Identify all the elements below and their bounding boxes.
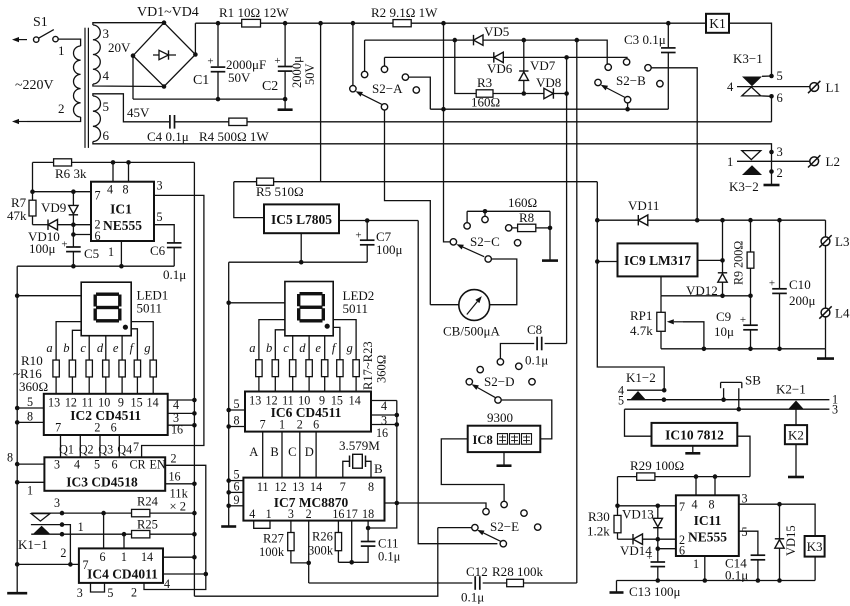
wire IC11 pin1 riser [704, 556, 706, 581]
svg-text:2: 2 [131, 586, 137, 600]
wire LED2 seg f [333, 327, 340, 360]
svg-text:C3 0.1μ: C3 0.1μ [624, 32, 666, 47]
wire K1-1 line 3 [31, 512, 132, 514]
svg-text:C1: C1 [193, 73, 209, 88]
diode VD10 [48, 219, 58, 229]
svg-text:47k: 47k [7, 208, 27, 223]
ground K3-2 [764, 184, 780, 187]
diode VD11 [638, 215, 648, 225]
svg-text:18: 18 [362, 507, 374, 521]
node R24/x194 [192, 511, 197, 516]
wire LED2 seg c [292, 336, 294, 360]
svg-text:12: 12 [266, 394, 278, 408]
svg-text:Q1: Q1 [59, 443, 74, 457]
switch S2-A contact 1 [361, 71, 367, 77]
svg-text:K3: K3 [807, 539, 823, 554]
wire VD14 to R30 [618, 538, 634, 540]
wire LED1 feed [17, 295, 81, 297]
node C5 on gnd rail [71, 264, 76, 269]
wire top rail segment D to K3-1 [729, 23, 772, 76]
svg-text:S2−E: S2−E [490, 519, 519, 534]
svg-text:Q2: Q2 [79, 443, 94, 457]
wire R5 line left [234, 181, 257, 183]
wire R27 bottom [291, 551, 310, 563]
wire LED1 seg d [105, 336, 107, 360]
crystal B1 3.579M [349, 456, 351, 468]
node pin17/R26/C11 [349, 560, 354, 565]
wire IC7 pin18 down [367, 521, 369, 542]
svg-text:13: 13 [292, 480, 304, 494]
node C13 on rail [656, 578, 661, 583]
switch S2-A contact 4 [413, 87, 419, 93]
svg-text:6: 6 [777, 91, 783, 105]
svg-text:15: 15 [331, 394, 343, 408]
svg-text:7: 7 [55, 421, 61, 435]
node pin7/VD13 [656, 504, 661, 509]
svg-text:+: + [740, 314, 746, 326]
resistor R7 [29, 200, 36, 216]
wire Q4 [118, 435, 120, 457]
switch S2-A rotor [350, 86, 356, 92]
switch S2-D moving contact [495, 397, 501, 403]
switch S2-A contact 3 [402, 74, 408, 80]
wire Q1 [60, 435, 62, 457]
wire C7 bottom lead [366, 245, 368, 262]
svg-text:NE555: NE555 [688, 530, 727, 545]
svg-text:8: 8 [709, 498, 715, 512]
wire LED1 seg c [88, 336, 90, 360]
wire D [315, 432, 317, 478]
svg-text:4: 4 [164, 577, 170, 591]
wire C9 top lead [750, 296, 752, 325]
output terminal L4 [821, 308, 830, 317]
node K3-2 pin2 [769, 169, 774, 174]
resistor R14 [119, 360, 125, 377]
wire IC1 ground rail [17, 265, 174, 267]
diode VD15 [775, 540, 784, 549]
svg-text:9300: 9300 [487, 410, 514, 425]
wire IC2 pin16 stub [168, 424, 195, 426]
wire IC11 pin5 to C14 [739, 531, 758, 555]
wire S1 to transformer primary [58, 39, 80, 46]
wire L3-L4 link [825, 246, 827, 308]
node IC2 pin5 [15, 406, 20, 411]
node IC11 pin4 feed [694, 474, 699, 479]
svg-text:A: A [249, 445, 258, 459]
svg-text:1: 1 [727, 155, 733, 169]
svg-text:0.1μ: 0.1μ [525, 353, 548, 368]
wire R6 line right [72, 161, 195, 163]
wire VD5 line [365, 39, 474, 41]
node pin6/C13 [656, 546, 661, 551]
svg-text:2: 2 [306, 507, 312, 521]
svg-text:8: 8 [123, 183, 129, 197]
svg-text:0.1μ: 0.1μ [725, 568, 748, 583]
node pin7 line on x17 [15, 562, 20, 567]
lamp terminal L1 [810, 83, 819, 92]
wire IC11 pin7 line [618, 505, 676, 507]
node pin1 on rail [703, 578, 708, 583]
node C1 top [216, 21, 221, 26]
node K1-1 line3 terminal [60, 511, 65, 516]
wire negative rail [133, 98, 285, 100]
node VD5 line / R3 branch [453, 38, 458, 43]
svg-text:1: 1 [58, 43, 65, 58]
switch S2-C contact 3 (R8) [506, 225, 512, 231]
wire C3 top lead [667, 23, 669, 47]
wire winding-4 to bridge AC bottom [93, 84, 164, 87]
wire IC1 pin3 output [142, 195, 204, 457]
wire C2 ground stub [284, 99, 286, 110]
svg-text:L1: L1 [826, 80, 840, 95]
capacitor C11 [361, 541, 376, 543]
resistor R9 [747, 252, 754, 268]
wire C2 top lead [284, 23, 286, 66]
node line3/SB [737, 407, 742, 412]
node IC7 pin6 [226, 490, 231, 495]
svg-text:1: 1 [78, 520, 84, 534]
switch S2-C contact 2 [482, 216, 488, 222]
wire VD5 line right [483, 40, 607, 64]
display LED1 [81, 282, 131, 336]
svg-text:3: 3 [288, 507, 294, 521]
wire IC2 pin5 stub [17, 407, 44, 409]
svg-text:K2−1: K2−1 [776, 382, 806, 397]
svg-text:12: 12 [65, 396, 77, 410]
svg-text:9: 9 [319, 394, 325, 408]
svg-text:300k: 300k [308, 544, 334, 558]
svg-text:Q4: Q4 [117, 443, 132, 457]
wire R24 right [150, 512, 195, 514]
switch S2-D contact 1 [497, 359, 503, 365]
wire C7 top lead [366, 221, 368, 241]
wire IC9 bottom rail [661, 348, 826, 350]
svg-text:R26: R26 [312, 530, 333, 544]
diode VD14 [633, 534, 643, 544]
wire IC4 pin14 stub [163, 556, 194, 558]
timer IC11 NE555 [676, 495, 739, 556]
svg-text:4: 4 [692, 498, 698, 512]
svg-text:S1: S1 [33, 15, 48, 30]
node IC9 out / VD12 [720, 258, 725, 263]
svg-text:2: 2 [94, 421, 100, 435]
wire R18 to IC6 [274, 377, 276, 392]
node C3 top [666, 21, 671, 26]
svg-text:4: 4 [107, 183, 113, 197]
wire LED2 seg d [308, 336, 310, 360]
svg-text:C12: C12 [466, 564, 488, 579]
wire +5V riser to S2-E moving [418, 221, 497, 544]
wire top rail segment B [261, 22, 394, 24]
ground K2 [788, 476, 804, 479]
node VD12 / adj line [720, 294, 725, 299]
svg-text:16: 16 [332, 507, 344, 521]
capacitor C6 [167, 242, 182, 244]
node VD15 on rail [777, 578, 782, 583]
ground bottom left [7, 592, 27, 595]
node K1-1 pin1 branch [122, 532, 127, 537]
wire IC3 pin16 stub [165, 483, 194, 485]
wire IC1 pin5 to C6 [154, 225, 174, 243]
svg-text:K1−1: K1−1 [18, 537, 48, 552]
capacitor C7 [360, 239, 375, 241]
svg-text:11: 11 [257, 480, 269, 494]
svg-text:100μ: 100μ [29, 241, 56, 256]
wire IC11 bottom rail [617, 580, 816, 582]
regulator IC5 L7805 [264, 204, 339, 233]
switch S2-E rotor [472, 524, 478, 530]
svg-text:8: 8 [233, 414, 239, 428]
wire VD12 riser [722, 220, 724, 273]
node IC3 pin1 [15, 480, 20, 485]
wire IC9 input lead [597, 261, 617, 263]
svg-text:0.1μ: 0.1μ [163, 267, 186, 282]
svg-text:45V: 45V [127, 105, 150, 120]
capacitor C4 [169, 115, 171, 129]
svg-text:5: 5 [777, 69, 783, 83]
wire VD10 to left vertical [33, 224, 49, 226]
svg-text:6: 6 [313, 418, 319, 432]
node IC6 pin5 [226, 408, 231, 413]
node IC2 pin8 [15, 420, 20, 425]
svg-text:13: 13 [249, 394, 261, 408]
svg-text:7: 7 [95, 189, 101, 203]
switch S1 lever [39, 30, 54, 39]
wire VD15 top lead [779, 504, 781, 538]
svg-text:11: 11 [282, 394, 294, 408]
wire riser top rail to R5 rail [320, 23, 322, 182]
svg-text:K3−1: K3−1 [733, 51, 763, 66]
wire VD5 branch down to R3 [455, 40, 476, 93]
wire line3 to IC10 input [625, 409, 652, 436]
capacitor C2 [278, 66, 293, 68]
regulator IC9 LM317 [618, 243, 698, 276]
switch S2-E contact 1 [501, 501, 507, 507]
node LED1 feed [15, 293, 20, 298]
node VD9/pin2 line [71, 222, 76, 227]
node R2 output [441, 21, 446, 26]
diode VD7 [519, 72, 528, 81]
node x396/S2-E line [395, 501, 400, 506]
wire R7 top [32, 162, 34, 200]
switch S2-C contact 1 [464, 223, 470, 229]
svg-text:VD13: VD13 [622, 507, 654, 522]
wire IC1 pin6 line [73, 234, 91, 236]
wire IC9 adj pin [660, 276, 662, 295]
svg-text:R30: R30 [588, 509, 610, 524]
node line5/common [662, 397, 667, 402]
node C2 bottom [283, 97, 288, 102]
svg-text:7: 7 [133, 440, 139, 454]
svg-text:d: d [97, 341, 104, 355]
gate IC4 CD4011 [79, 548, 163, 583]
node VD8 / xA [564, 91, 569, 96]
wire IC4 pin4 loop [144, 574, 206, 590]
svg-text:e: e [315, 341, 321, 355]
switch S1 contact right [53, 36, 58, 41]
wire VD9 top lead [72, 192, 74, 206]
wire C3 bottom lead [667, 53, 669, 110]
node K1-2 common [662, 388, 667, 393]
node pin7/VD9 [71, 189, 76, 194]
svg-text:R25: R25 [137, 518, 158, 532]
svg-text:VD8: VD8 [536, 75, 562, 90]
svg-text:VD5: VD5 [484, 24, 509, 39]
svg-text:3: 3 [103, 26, 110, 41]
wire IC5 output [339, 220, 418, 222]
svg-text:3: 3 [832, 403, 838, 417]
resistor R2 [393, 20, 411, 27]
resistor R19 [290, 360, 296, 377]
triac K3-1 upper filled triangle [742, 77, 762, 87]
svg-text:C4 0.1μ: C4 0.1μ [147, 129, 189, 144]
node IC1 pin8 feed [126, 160, 131, 165]
wire common rail to C3 [430, 108, 668, 110]
svg-text:5: 5 [742, 525, 748, 539]
wire R12 to IC2 [88, 377, 90, 394]
svg-text:VD11: VD11 [628, 198, 659, 213]
resistor R21 [322, 360, 328, 377]
node wiper on rail [702, 347, 707, 352]
wire VD7 bottom lead [523, 80, 525, 93]
wire R9 bottom lead [750, 268, 752, 296]
svg-text:Q3: Q3 [98, 443, 113, 457]
wire LED2 seg a [259, 320, 285, 360]
wire C2 bottom lead [284, 71, 286, 99]
decoder IC7 MC8870 [243, 478, 384, 521]
wire IC8 ground stub [503, 452, 505, 465]
wire R29 line left [618, 476, 637, 478]
wire primary bottom to AC terminal [27, 117, 81, 122]
wire rail left ground stub [616, 581, 618, 592]
resistor R27 [288, 533, 294, 551]
svg-text:13: 13 [48, 396, 60, 410]
wire bridge DC+ riser [194, 23, 196, 54]
wire VD15 bottom lead [779, 548, 781, 580]
switch S2-C moving contact [485, 256, 491, 262]
wire IC4 pin7 line [17, 563, 79, 565]
svg-text:2000μ: 2000μ [290, 56, 304, 88]
svg-text:10: 10 [298, 394, 310, 408]
node IC3 pin16 [192, 482, 197, 487]
wire RP1 top lead [660, 296, 662, 313]
svg-text:360Ω: 360Ω [19, 379, 48, 394]
switch S2-E contact 4 [535, 524, 541, 530]
svg-text:R27: R27 [263, 532, 284, 546]
svg-text:b: b [266, 341, 272, 355]
resistor R17 [256, 360, 262, 377]
switch S2-B contact 1 [605, 64, 611, 70]
node IC5 gnd pin [299, 260, 304, 265]
resistor R24 [132, 509, 150, 516]
capacitor C12 [474, 576, 476, 590]
wire 45V rail [247, 121, 772, 123]
svg-text:CB/500μA: CB/500μA [443, 324, 500, 339]
node IC7 pin9 [226, 504, 231, 509]
node K1-1 line1 terminal [60, 532, 65, 537]
svg-text:IC5 L7805: IC5 L7805 [271, 212, 332, 227]
node IC6 pin3 [395, 413, 400, 418]
meter needle [467, 302, 478, 315]
svg-text:9: 9 [233, 493, 239, 507]
svg-text:14: 14 [147, 396, 159, 410]
node VD11/C10 [777, 218, 782, 223]
node S2-A rotor feed [351, 21, 356, 26]
wire left vertical x228 [228, 262, 230, 525]
wire S2-A moving to meter riser [385, 110, 431, 305]
svg-text:+: + [769, 278, 775, 290]
svg-text:5: 5 [107, 586, 113, 600]
ground under C2 [278, 108, 293, 111]
svg-text:+: + [207, 56, 213, 68]
svg-text:NE555: NE555 [103, 218, 142, 233]
wire IC11 pin8 riser [714, 477, 716, 496]
switch S2-A lever [362, 94, 383, 104]
relay coil K1 [706, 14, 729, 33]
node K1-1 pin6 branch [101, 511, 106, 516]
switch S2-D contact 3 [516, 363, 522, 369]
svg-text:16: 16 [169, 470, 181, 484]
svg-text:5: 5 [27, 395, 33, 409]
wire meter left lead [430, 304, 458, 306]
wire IC4 pins3-5 bridge [91, 583, 105, 592]
wire K3-1 bottom to 45V rail [771, 96, 773, 122]
decoder IC6 CD4511 [245, 392, 371, 432]
switch S2-E lever [483, 533, 501, 542]
svg-text:R9 200Ω: R9 200Ω [732, 241, 746, 285]
capacitor C14 [751, 554, 766, 556]
svg-text:C13 100μ: C13 100μ [629, 584, 680, 599]
svg-text:IC4 CD4011: IC4 CD4011 [87, 567, 158, 582]
switch S2-E contact 3 [521, 510, 527, 516]
wire L3 top lead [825, 220, 827, 237]
display LED2 [285, 282, 333, 336]
wire K3-1 pin6 link [761, 95, 772, 97]
wire IC10 ground stub [692, 446, 694, 453]
switch S2-B moving contact [624, 97, 630, 103]
node IC1 pin4 feed [111, 160, 116, 165]
svg-text:D: D [305, 445, 314, 459]
wire S2-A rotor riser [352, 23, 354, 86]
wire R21 to IC6 [324, 377, 326, 392]
svg-text:8: 8 [7, 451, 13, 465]
wire IC4 pin1 riser [123, 534, 125, 548]
music chip IC8 9300 [468, 426, 541, 452]
svg-text:3.579M: 3.579M [339, 438, 380, 453]
wire winding-6 rail [93, 142, 772, 153]
diode VD5 [474, 35, 484, 45]
relay contact K1-1 filled triangle [34, 526, 50, 534]
wire R28 to xB [524, 582, 577, 584]
wire bridge DC- drop [132, 56, 134, 99]
svg-text:4: 4 [103, 68, 110, 83]
switch S2-C lever [463, 247, 484, 257]
diode VD6 [494, 52, 504, 62]
wire xA riser (VD6 node down to C8) [566, 57, 568, 343]
wire S2-C ground drop [549, 211, 551, 260]
wire K1-1 line 1 [31, 533, 132, 535]
wire C12 to R28 [483, 582, 507, 584]
node pin3/VD15 [777, 502, 782, 507]
wire LED2 seg g [333, 320, 356, 360]
wire RP1 bottom lead [660, 331, 662, 349]
node K3-2 pin3 [769, 150, 774, 155]
node pin1 on gnd rail [119, 264, 124, 269]
wire C10 top lead [779, 220, 781, 288]
ground S2-C [542, 259, 558, 262]
node VD11/R9 [748, 218, 753, 223]
wire pin17 down [351, 521, 353, 563]
